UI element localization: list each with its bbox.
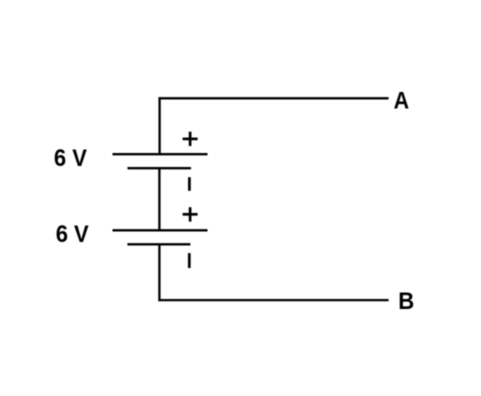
wire: vertical from top corner down to battery B1 positive plate [158, 97, 160, 154]
wire: vertical from battery B2 negative plate down to bottom corner [158, 244, 160, 301]
battery B1 (6 V) negative plate (short) [128, 167, 192, 169]
polarity - label of battery B2 (vertical tick) [188, 253, 191, 268]
wire: top horizontal from corner to terminal A [159, 97, 389, 99]
svg-text:B: B [398, 288, 414, 315]
polarity + label of battery B2 [183, 207, 198, 221]
wire: vertical between battery B1 and battery B2 [158, 168, 160, 230]
battery B2 (6 V) negative plate (short) [127, 243, 190, 245]
battery B2 (6 V) positive plate (long) [113, 229, 208, 231]
battery B1 (6 V) positive plate (long) [113, 153, 208, 155]
polarity + label of battery B1 [183, 132, 198, 146]
svg-text:6 V: 6 V [56, 221, 89, 248]
svg-text:6 V: 6 V [54, 145, 87, 172]
polarity - label of battery B1 (vertical tick) [188, 177, 191, 191]
wire: bottom horizontal from corner to terminal B [159, 299, 389, 301]
svg-text:A: A [394, 88, 410, 115]
